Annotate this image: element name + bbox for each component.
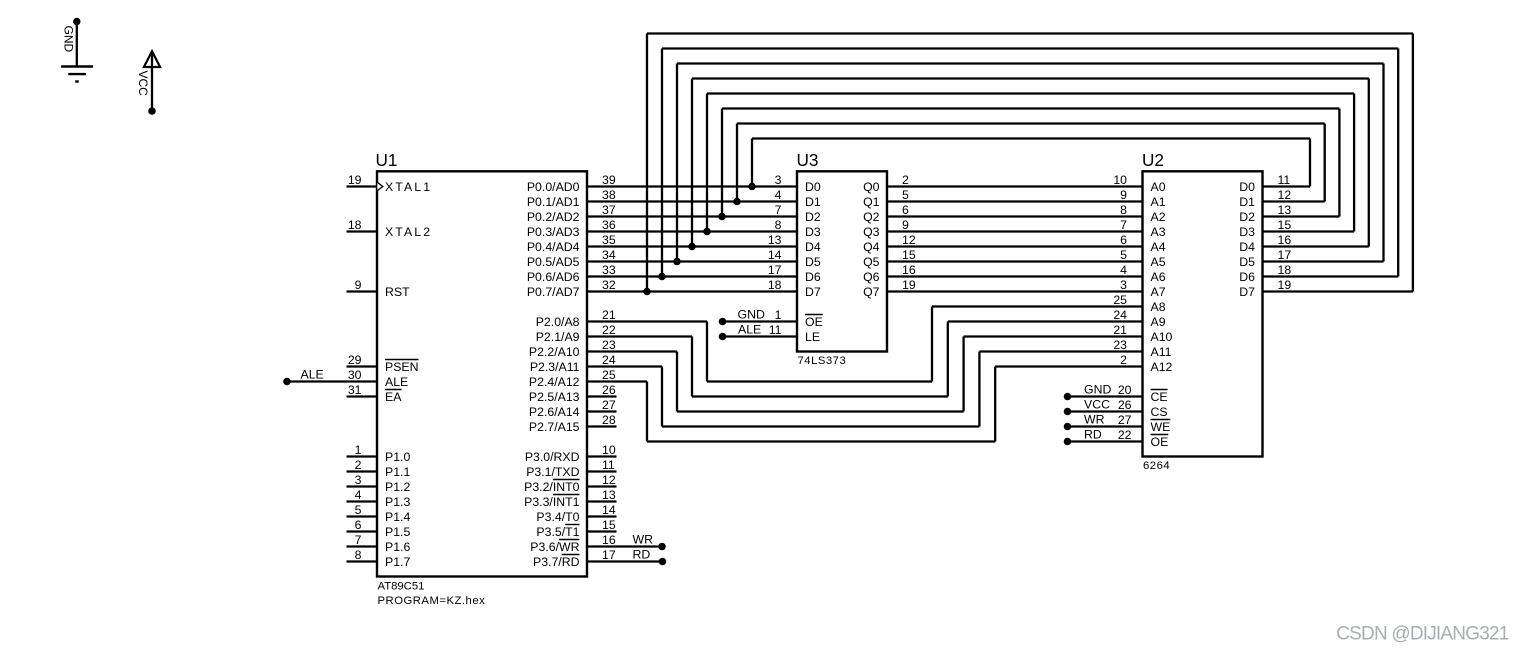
svg-text:P1.2: P1.2 xyxy=(385,480,410,494)
svg-text:P2.6/A14: P2.6/A14 xyxy=(529,405,580,419)
svg-text:24: 24 xyxy=(1113,308,1127,322)
svg-text:14: 14 xyxy=(602,503,616,517)
svg-text:23: 23 xyxy=(602,338,616,352)
svg-text:P1.4: P1.4 xyxy=(385,510,410,524)
svg-text:VCC: VCC xyxy=(136,71,150,97)
svg-text:P1.1: P1.1 xyxy=(385,465,410,479)
svg-text:AT89C51: AT89C51 xyxy=(378,580,425,592)
svg-text:6: 6 xyxy=(355,518,362,532)
svg-text:21: 21 xyxy=(602,308,616,322)
svg-text:PSEN: PSEN xyxy=(385,360,419,374)
svg-text:A4: A4 xyxy=(1151,240,1166,254)
svg-text:8: 8 xyxy=(1120,203,1127,217)
svg-text:12: 12 xyxy=(1278,188,1292,202)
svg-text:P0.6/AD6: P0.6/AD6 xyxy=(527,270,580,284)
svg-text:13: 13 xyxy=(1278,203,1292,217)
svg-text:D5: D5 xyxy=(805,255,821,269)
svg-text:6: 6 xyxy=(1120,233,1127,247)
svg-text:U1: U1 xyxy=(376,150,398,170)
svg-text:A2: A2 xyxy=(1151,210,1166,224)
svg-text:5: 5 xyxy=(1120,248,1127,262)
svg-text:1: 1 xyxy=(355,443,362,457)
svg-text:17: 17 xyxy=(768,263,782,277)
svg-text:RD: RD xyxy=(633,547,651,561)
svg-text:U3: U3 xyxy=(797,150,819,170)
svg-text:5: 5 xyxy=(355,503,362,517)
svg-text:PROGRAM=KZ.hex: PROGRAM=KZ.hex xyxy=(378,595,486,607)
svg-text:26: 26 xyxy=(602,383,616,397)
svg-text:38: 38 xyxy=(602,188,616,202)
svg-text:3: 3 xyxy=(355,473,362,487)
svg-text:35: 35 xyxy=(602,233,616,247)
svg-text:2: 2 xyxy=(902,173,909,187)
svg-text:D6: D6 xyxy=(805,270,821,284)
svg-text:31: 31 xyxy=(348,383,362,397)
svg-text:15: 15 xyxy=(902,248,916,262)
svg-text:LE: LE xyxy=(805,330,820,344)
svg-text:Q1: Q1 xyxy=(863,195,880,209)
svg-text:A11: A11 xyxy=(1151,345,1172,359)
svg-text:12: 12 xyxy=(602,473,616,487)
svg-text:U2: U2 xyxy=(1142,150,1164,170)
svg-text:3: 3 xyxy=(775,173,782,187)
svg-text:Q6: Q6 xyxy=(863,270,880,284)
svg-text:D3: D3 xyxy=(805,225,821,239)
svg-text:2: 2 xyxy=(355,458,362,472)
svg-text:Q4: Q4 xyxy=(863,240,880,254)
svg-text:A3: A3 xyxy=(1151,225,1166,239)
svg-text:P3.3/INT1: P3.3/INT1 xyxy=(524,495,580,509)
svg-text:P0.1/AD1: P0.1/AD1 xyxy=(527,195,580,209)
svg-text:30: 30 xyxy=(348,368,362,382)
svg-text:2: 2 xyxy=(1120,353,1127,367)
svg-text:32: 32 xyxy=(602,278,616,292)
svg-text:11: 11 xyxy=(602,458,615,472)
svg-text:10: 10 xyxy=(602,443,616,457)
svg-text:A12: A12 xyxy=(1151,360,1173,374)
svg-text:12: 12 xyxy=(902,233,916,247)
svg-text:P1.3: P1.3 xyxy=(385,495,410,509)
svg-text:ALE: ALE xyxy=(301,367,324,381)
svg-text:D0: D0 xyxy=(1239,180,1255,194)
svg-text:D6: D6 xyxy=(1239,270,1255,284)
svg-text:11: 11 xyxy=(769,323,782,337)
svg-text:P2.4/A12: P2.4/A12 xyxy=(529,375,580,389)
svg-text:29: 29 xyxy=(348,353,362,367)
svg-text:A5: A5 xyxy=(1151,255,1166,269)
svg-text:A7: A7 xyxy=(1151,285,1166,299)
svg-text:P2.5/A13: P2.5/A13 xyxy=(529,390,580,404)
svg-text:Q0: Q0 xyxy=(863,180,880,194)
svg-text:P3.5/T1: P3.5/T1 xyxy=(536,525,579,539)
svg-text:P3.7/RD: P3.7/RD xyxy=(533,555,580,569)
svg-text:A1: A1 xyxy=(1151,195,1166,209)
svg-text:18: 18 xyxy=(1278,263,1292,277)
svg-text:D1: D1 xyxy=(1239,195,1255,209)
svg-text:3: 3 xyxy=(1120,278,1127,292)
svg-text:D2: D2 xyxy=(805,210,821,224)
svg-text:6264: 6264 xyxy=(1143,460,1170,472)
svg-text:34: 34 xyxy=(602,248,616,262)
svg-text:WR: WR xyxy=(1084,412,1105,426)
svg-text:5: 5 xyxy=(902,188,909,202)
svg-text:18: 18 xyxy=(348,218,362,232)
svg-text:39: 39 xyxy=(602,173,616,187)
svg-text:16: 16 xyxy=(902,263,916,277)
svg-text:D7: D7 xyxy=(805,285,821,299)
svg-text:19: 19 xyxy=(348,173,362,187)
svg-text:OE: OE xyxy=(1151,435,1169,449)
svg-text:D2: D2 xyxy=(1239,210,1255,224)
svg-text:D1: D1 xyxy=(805,195,821,209)
svg-text:25: 25 xyxy=(602,368,616,382)
svg-text:22: 22 xyxy=(1118,428,1132,442)
svg-text:37: 37 xyxy=(602,203,616,217)
svg-text:22: 22 xyxy=(602,323,616,337)
svg-text:P3.6/WR: P3.6/WR xyxy=(530,540,579,554)
svg-text:P0.7/AD7: P0.7/AD7 xyxy=(527,285,580,299)
svg-text:P3.1/TXD: P3.1/TXD xyxy=(526,465,579,479)
svg-text:11: 11 xyxy=(1278,173,1291,187)
svg-text:23: 23 xyxy=(1113,338,1127,352)
svg-text:D4: D4 xyxy=(1239,240,1255,254)
svg-text:P0.0/AD0: P0.0/AD0 xyxy=(527,180,580,194)
svg-text:15: 15 xyxy=(1278,218,1292,232)
svg-text:P0.4/AD4: P0.4/AD4 xyxy=(527,240,580,254)
svg-text:CSDN @DIJIANG321: CSDN @DIJIANG321 xyxy=(1336,624,1508,645)
svg-text:Q5: Q5 xyxy=(863,255,880,269)
svg-text:P1.7: P1.7 xyxy=(385,555,410,569)
svg-text:P3.4/T0: P3.4/T0 xyxy=(536,510,579,524)
svg-text:XTAL1: XTAL1 xyxy=(385,180,432,194)
svg-text:24: 24 xyxy=(602,353,616,367)
svg-text:20: 20 xyxy=(1118,383,1132,397)
svg-text:7: 7 xyxy=(775,203,782,217)
svg-text:17: 17 xyxy=(1278,248,1292,262)
svg-text:15: 15 xyxy=(602,518,616,532)
svg-text:28: 28 xyxy=(602,413,616,427)
svg-text:14: 14 xyxy=(768,248,782,262)
svg-text:D4: D4 xyxy=(805,240,821,254)
svg-text:P1.6: P1.6 xyxy=(385,540,410,554)
svg-text:17: 17 xyxy=(602,548,616,562)
svg-text:A8: A8 xyxy=(1151,300,1166,314)
svg-text:18: 18 xyxy=(768,278,782,292)
svg-text:A6: A6 xyxy=(1151,270,1166,284)
svg-text:25: 25 xyxy=(1113,293,1127,307)
svg-text:4: 4 xyxy=(775,188,782,202)
svg-text:Q7: Q7 xyxy=(863,285,880,299)
svg-text:WE: WE xyxy=(1151,420,1171,434)
svg-text:VCC: VCC xyxy=(1084,397,1110,411)
svg-text:27: 27 xyxy=(1118,413,1132,427)
svg-text:P3.2/INT0: P3.2/INT0 xyxy=(524,480,580,494)
svg-text:13: 13 xyxy=(768,233,782,247)
svg-text:CS: CS xyxy=(1151,405,1168,419)
svg-text:4: 4 xyxy=(355,488,362,502)
svg-text:9: 9 xyxy=(355,278,362,292)
svg-text:P0.2/AD2: P0.2/AD2 xyxy=(527,210,580,224)
svg-text:P2.1/A9: P2.1/A9 xyxy=(536,330,580,344)
svg-text:P1.5: P1.5 xyxy=(385,525,410,539)
svg-text:8: 8 xyxy=(775,218,782,232)
svg-text:Q3: Q3 xyxy=(863,225,880,239)
svg-text:9: 9 xyxy=(902,218,909,232)
svg-text:A0: A0 xyxy=(1151,180,1166,194)
svg-text:16: 16 xyxy=(1278,233,1292,247)
svg-text:WR: WR xyxy=(633,532,654,546)
svg-text:36: 36 xyxy=(602,218,616,232)
svg-text:RD: RD xyxy=(1084,427,1102,441)
svg-text:P1.0: P1.0 xyxy=(385,450,410,464)
svg-text:RST: RST xyxy=(385,285,410,299)
svg-text:ALE: ALE xyxy=(738,322,761,336)
svg-text:19: 19 xyxy=(1278,278,1292,292)
svg-text:P2.3/A11: P2.3/A11 xyxy=(530,360,580,374)
svg-text:8: 8 xyxy=(355,548,362,562)
svg-text:27: 27 xyxy=(602,398,616,412)
svg-text:P2.0/A8: P2.0/A8 xyxy=(536,315,580,329)
svg-text:26: 26 xyxy=(1118,398,1132,412)
svg-text:EA: EA xyxy=(385,390,402,404)
svg-text:33: 33 xyxy=(602,263,616,277)
svg-text:9: 9 xyxy=(1120,188,1127,202)
svg-text:GND: GND xyxy=(738,307,765,321)
svg-text:D0: D0 xyxy=(805,180,821,194)
svg-text:21: 21 xyxy=(1113,323,1127,337)
svg-text:CE: CE xyxy=(1151,390,1168,404)
svg-text:P3.0/RXD: P3.0/RXD xyxy=(525,450,580,464)
svg-text:6: 6 xyxy=(902,203,909,217)
svg-text:OE: OE xyxy=(805,315,823,329)
svg-text:7: 7 xyxy=(355,533,362,547)
svg-text:D3: D3 xyxy=(1239,225,1255,239)
svg-text:74LS373: 74LS373 xyxy=(798,355,847,367)
svg-text:4: 4 xyxy=(1120,263,1127,277)
svg-text:XTAL2: XTAL2 xyxy=(385,225,432,239)
svg-text:10: 10 xyxy=(1113,173,1127,187)
svg-text:7: 7 xyxy=(1120,218,1127,232)
svg-text:A9: A9 xyxy=(1151,315,1166,329)
svg-text:A10: A10 xyxy=(1151,330,1173,344)
svg-text:P0.3/AD3: P0.3/AD3 xyxy=(527,225,580,239)
svg-text:16: 16 xyxy=(602,533,616,547)
svg-text:GND: GND xyxy=(1084,382,1111,396)
svg-text:P2.2/A10: P2.2/A10 xyxy=(529,345,580,359)
svg-text:P2.7/A15: P2.7/A15 xyxy=(529,420,580,434)
svg-text:D7: D7 xyxy=(1239,285,1255,299)
svg-text:19: 19 xyxy=(902,278,916,292)
svg-text:D5: D5 xyxy=(1239,255,1255,269)
svg-text:P0.5/AD5: P0.5/AD5 xyxy=(527,255,580,269)
svg-text:13: 13 xyxy=(602,488,616,502)
svg-text:ALE: ALE xyxy=(385,375,408,389)
svg-text:Q2: Q2 xyxy=(863,210,880,224)
svg-text:GND: GND xyxy=(62,26,76,53)
svg-text:1: 1 xyxy=(775,308,782,322)
